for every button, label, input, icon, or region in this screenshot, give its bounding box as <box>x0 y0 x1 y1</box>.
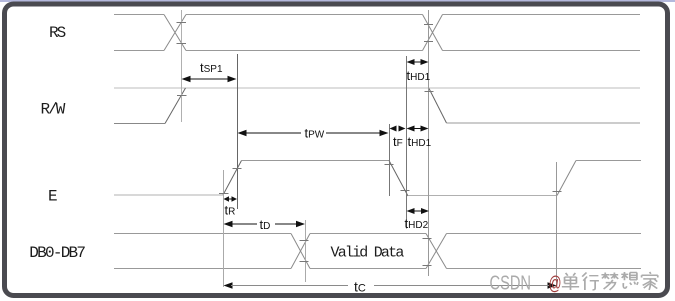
tick DB X1 lower <box>300 261 309 263</box>
RS crossover X1 <box>164 15 186 51</box>
tick E fall top <box>385 164 394 166</box>
RS low rail <box>114 50 640 52</box>
R/W high guide rail <box>114 87 640 89</box>
vertical ref line x=556.8 <box>556 162 558 287</box>
watermark 梦 <box>601 272 618 289</box>
R/W low rail right <box>447 122 641 124</box>
E low rail middle <box>408 195 557 197</box>
arrow tHD1 lower <box>407 126 429 132</box>
RS crossover X2 <box>423 15 443 51</box>
tick DB X2 upper <box>423 238 432 240</box>
tick RS X2 upper <box>424 24 433 26</box>
R/W low rail left <box>114 123 165 125</box>
DB0-DB7 top rail <box>114 233 641 235</box>
arrow tHD1 upper <box>407 59 429 65</box>
arrow tF <box>390 126 406 132</box>
E rising edge 1 <box>223 161 242 196</box>
tick E rise top <box>233 168 242 170</box>
vertical ref line x=181 <box>181 10 183 122</box>
svg-text:CSDN: CSDN <box>490 273 532 295</box>
tick E fall bottom <box>401 190 410 192</box>
DB crossover X1 <box>291 234 310 269</box>
E high rail <box>242 160 390 162</box>
RS high rail <box>114 14 640 16</box>
R/W rising edge <box>165 88 186 124</box>
svg-text:Valid Data: Valid Data <box>331 245 405 262</box>
DB crossover X2 <box>426 234 447 269</box>
tick E rise bottom <box>219 193 229 195</box>
E low rail left <box>114 194 223 196</box>
tick R/W fall <box>425 91 434 93</box>
watermark 行 <box>582 272 599 289</box>
watermark 想 <box>621 272 638 288</box>
tick RS X2 lower <box>424 41 433 43</box>
svg-text:RS: RS <box>49 24 66 42</box>
DB0-DB7 bottom rail <box>114 268 641 270</box>
tick E rise2 <box>553 191 562 193</box>
tick DB X2 lower <box>423 265 432 267</box>
E high rail right <box>576 160 641 162</box>
E rising edge 2 <box>557 161 576 196</box>
svg-text:DB0-DB7: DB0-DB7 <box>29 244 85 262</box>
vertical ref line x=223.5 <box>223 170 225 287</box>
arrows <box>182 59 557 289</box>
arrow tSP1 <box>182 76 237 82</box>
vertical ref line x=389 <box>389 124 391 196</box>
tick R/W rise <box>177 95 187 97</box>
svg-text:@: @ <box>549 274 562 295</box>
arrow tR <box>224 196 238 201</box>
tick marks <box>177 23 562 266</box>
R/W falling edge <box>429 89 447 124</box>
E falling edge <box>389 161 408 197</box>
vertical ref line x=305.8 <box>305 220 307 282</box>
vertical ref line x=428.8 <box>428 10 430 276</box>
vertical ref line x=237 <box>237 54 239 209</box>
svg-text:E: E <box>48 188 58 206</box>
watermark 单 <box>562 273 579 290</box>
window top edge highlight <box>0 0 675 2</box>
svg-text:R/W: R/W <box>41 101 66 119</box>
vertical ref line x=406 <box>406 56 408 229</box>
tick RS X1 upper <box>177 22 187 24</box>
tick DB X1 upper <box>300 240 309 242</box>
tick RS X1 lower <box>177 43 187 45</box>
arrow tC <box>224 282 557 288</box>
watermark 家 <box>642 272 658 290</box>
arrow tPW <box>238 130 389 136</box>
arrow tHD2 <box>407 208 430 214</box>
arrow tD <box>224 221 306 227</box>
